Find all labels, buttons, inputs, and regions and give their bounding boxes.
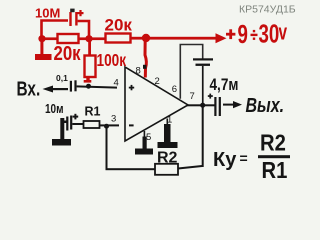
svg-text:=: = — [240, 150, 248, 166]
pin label 8 — [136, 66, 141, 77]
label 0,1 — [56, 73, 68, 83]
wire supply rail to arrow — [131, 37, 217, 40]
capacitor C1 black smudge mark — [70, 9, 74, 13]
svg-text:20к: 20к — [105, 16, 133, 35]
label R1 — [85, 105, 101, 119]
svg-text:v: v — [279, 21, 288, 45]
pin label 1 — [167, 115, 172, 126]
svg-text:4: 4 — [114, 78, 119, 89]
label 100k — [97, 52, 127, 71]
svg-text:5: 5 — [146, 132, 151, 143]
label Vx (input) — [17, 77, 41, 100]
svg-text:9: 9 — [238, 19, 248, 49]
svg-text:R1: R1 — [85, 105, 101, 119]
pin label 3 — [111, 114, 116, 125]
node B (right divider node) — [85, 35, 92, 42]
pin label 7 — [190, 91, 195, 102]
capacitor C1 polarity plus (red) — [78, 10, 84, 16]
svg-text:4,7м: 4,7м — [210, 76, 239, 95]
wire pin 8 supply (red) — [145, 39, 146, 78]
wire feedback right vertical — [202, 105, 204, 167]
ground (10m cap) — [52, 118, 71, 146]
svg-text:Вых.: Вых. — [246, 94, 285, 116]
capacitor 0,1 plates — [70, 80, 77, 91]
capacitor 10m polarity plus — [73, 114, 79, 120]
svg-text:2: 2 — [155, 76, 160, 87]
label R2 — [157, 150, 178, 167]
capacitor 4,7m polarity plus — [208, 94, 213, 99]
svg-text:КР574УД1Б: КР574УД1Б — [239, 3, 296, 15]
capacitor comp bottom lead — [202, 66, 204, 105]
label 20k (first) — [54, 41, 82, 64]
svg-text:6: 6 — [172, 84, 177, 95]
node A (left divider node) — [38, 35, 45, 42]
svg-text:R1: R1 — [262, 157, 288, 184]
node E (output junction) — [200, 103, 205, 108]
resistor R1 — [84, 121, 100, 128]
svg-text:Вх.: Вх. — [17, 77, 41, 100]
node F (pin 3 junction) — [104, 124, 109, 129]
wire R2 to right vertical — [178, 166, 202, 169]
svg-text:R2: R2 — [260, 129, 286, 156]
pin label 2 — [155, 76, 160, 87]
wire ground to cap 10m — [63, 121, 68, 124]
svg-text:7: 7 — [190, 91, 195, 102]
label +9..30V (red) — [226, 18, 287, 49]
label 10m (cap to ground) — [45, 103, 63, 116]
node C (supply junction) — [142, 34, 150, 42]
wire output pin 7 — [187, 104, 215, 106]
pin label 4 — [114, 78, 119, 89]
ground (divider, red) — [35, 39, 52, 60]
label Vyx (output) — [246, 94, 285, 116]
formula Ky = R2/R1 — [213, 129, 290, 183]
wire cap 10m to R1 — [72, 123, 83, 125]
resistor 100k (vertical) — [85, 56, 96, 78]
pin label 5 — [146, 132, 151, 143]
ground (pin 5) — [135, 131, 153, 155]
wire pin 6 compensation loop — [180, 45, 202, 99]
wire feedback left vertical — [106, 126, 108, 170]
label 20k (second) — [105, 16, 133, 35]
resistor 20k (horizontal, top-left) — [58, 34, 79, 43]
resistor R2 — [155, 164, 178, 175]
op-amp U1 triangle — [125, 67, 188, 141]
capacitor C1 top branch wire left — [42, 21, 69, 40]
svg-text:30: 30 — [259, 18, 280, 48]
capacitor C1 top branch wire right — [78, 21, 89, 39]
input arrow (points left) — [43, 86, 69, 93]
pin 8 black dot — [143, 65, 146, 69]
resistor 100k lead top — [88, 40, 91, 56]
op-amp minus sign — [129, 124, 134, 126]
svg-text:10м: 10м — [45, 103, 63, 116]
label 4,7m — [210, 76, 239, 95]
resistor 100k lead bottom with foot — [84, 77, 92, 83]
ground (pin 1) — [158, 119, 178, 149]
node D (junction 100k / input) — [86, 84, 91, 89]
output arrow — [223, 101, 242, 108]
svg-text:3: 3 — [111, 114, 116, 125]
svg-text:8: 8 — [136, 66, 141, 77]
svg-text:Ку: Ку — [213, 149, 237, 171]
wire feedback bottom — [106, 168, 156, 170]
svg-text:R2: R2 — [157, 150, 178, 167]
capacitor comp plates — [193, 58, 213, 66]
svg-text:100к: 100к — [97, 52, 127, 71]
label 10M (red) — [35, 6, 60, 21]
resistor 20k second (horizontal) — [106, 34, 131, 43]
wire R1 to pin 3 — [100, 124, 120, 126]
chip name KR574UD1B (grey) — [239, 3, 296, 15]
supply arrowhead — [216, 33, 227, 43]
svg-text:0,1: 0,1 — [56, 73, 68, 83]
wire cap 0,1 to pin 4 — [77, 86, 117, 87]
wire R 20k to node B — [79, 37, 106, 40]
svg-text:20к: 20к — [54, 41, 82, 64]
op-amp plus sign — [129, 85, 134, 90]
capacitor 4,7m plates — [214, 97, 221, 116]
capacitor 10m plates — [66, 116, 72, 131]
capacitor C1 plates — [69, 12, 77, 26]
wire node A to R 20k — [42, 37, 58, 40]
svg-text:10М: 10М — [35, 6, 60, 21]
pin label 6 — [172, 84, 177, 95]
